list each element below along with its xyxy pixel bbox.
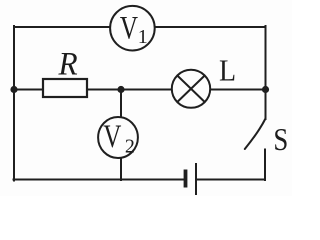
node B (middle junction)	[117, 86, 124, 93]
resistor R	[43, 79, 87, 97]
lamp L	[172, 70, 210, 108]
node C (right junction)	[262, 86, 269, 93]
wire bottom-right (battery to right corner)	[197, 179, 266, 181]
wire switch bottom contact stub	[264, 150, 266, 181]
wire middle left (node A to resistor R)	[13, 89, 43, 91]
wire left vertical	[13, 26, 15, 181]
svg-text:S: S	[273, 123, 288, 157]
svg-text:1: 1	[138, 26, 148, 48]
voltmeter V1	[110, 6, 155, 51]
wire top-right (V1 to right corner)	[155, 26, 266, 28]
wire voltmeter V2 bottom to bottom rail	[120, 157, 122, 180]
wire lamp L to node C	[210, 89, 266, 91]
battery negative plate (short thick)	[184, 170, 188, 188]
wire top-left (left corner to V1)	[14, 26, 110, 28]
svg-text:2: 2	[125, 135, 135, 157]
voltmeter V2	[98, 117, 138, 158]
svg-text:L: L	[219, 54, 236, 88]
node A (left junction)	[10, 86, 17, 93]
svg-text:R: R	[58, 45, 78, 82]
wire right vertical (top corner to switch)	[265, 26, 267, 119]
switch S (open blade)	[245, 119, 266, 150]
wire resistor R to lamp L (through node B)	[87, 89, 172, 91]
wire bottom-left (left corner to battery)	[14, 179, 185, 181]
battery positive plate (long thin)	[195, 163, 197, 195]
svg-text:V: V	[120, 10, 138, 46]
svg-text:V: V	[103, 119, 121, 155]
wire node B to voltmeter V2 top	[120, 90, 122, 117]
battery (cell)	[186, 163, 197, 195]
